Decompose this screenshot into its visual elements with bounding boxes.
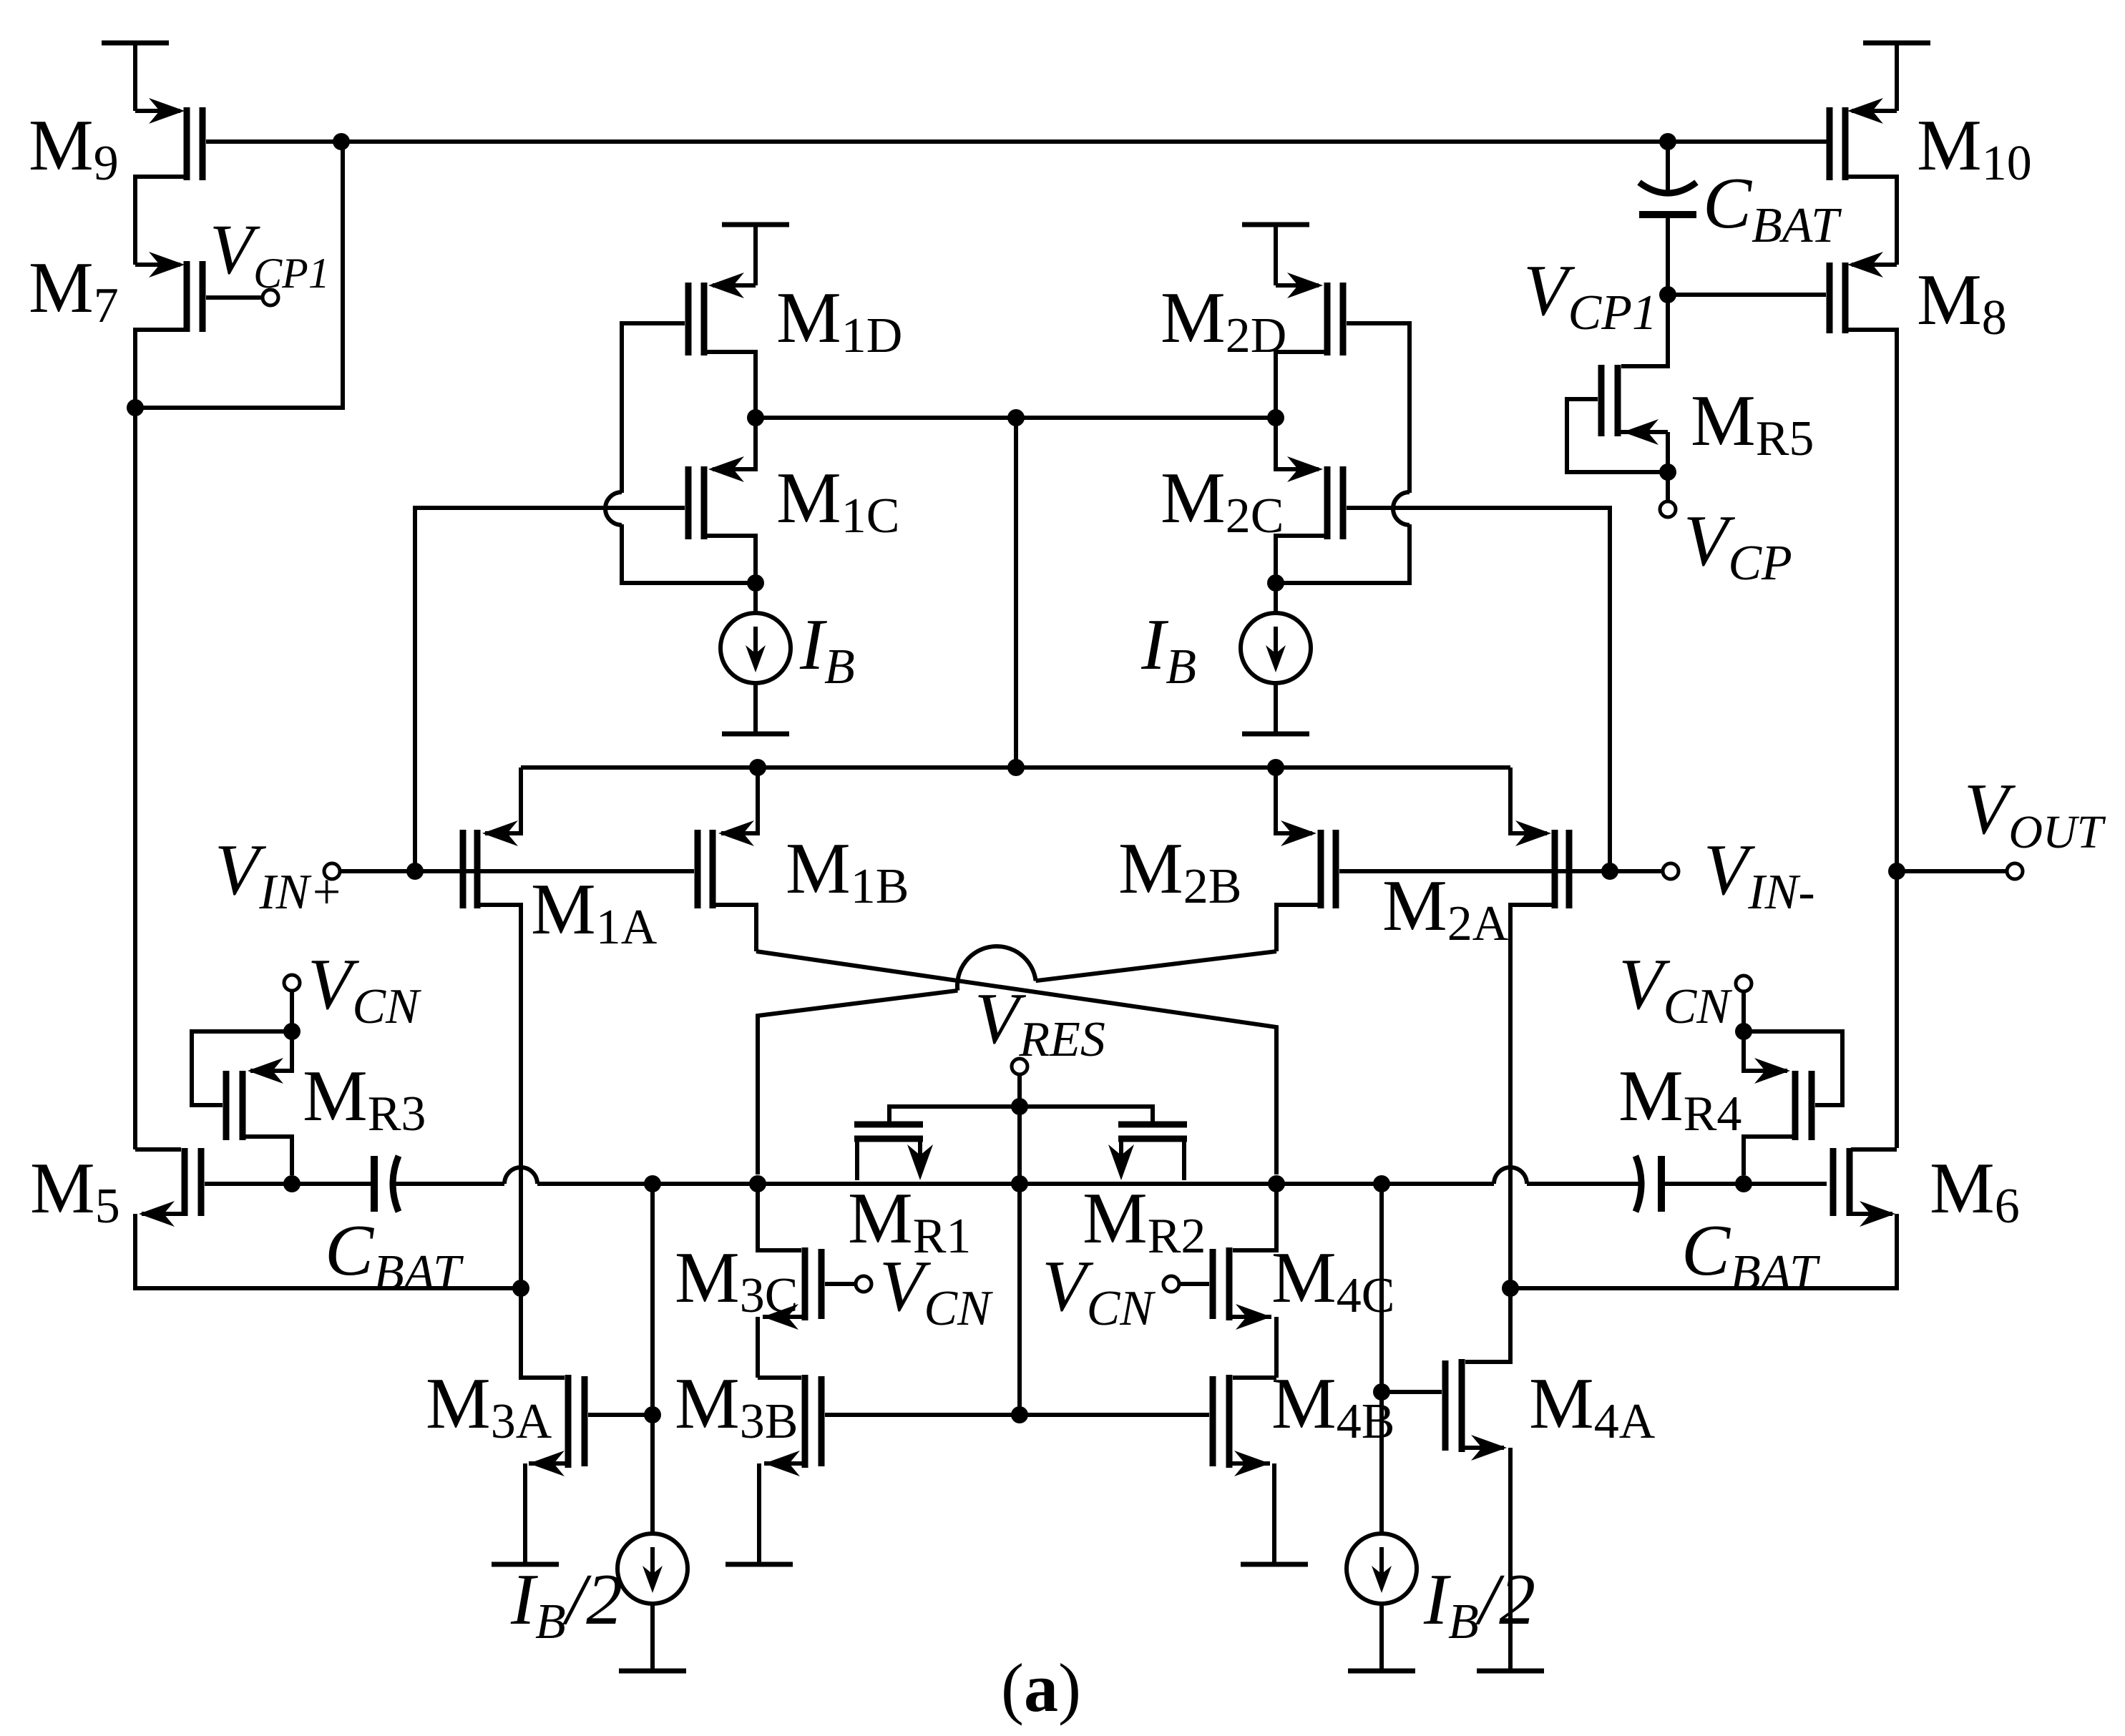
label MR2 <box>1083 1178 1206 1264</box>
node VCN left junction <box>283 1023 301 1040</box>
transistor M2A <box>1510 768 1569 1288</box>
node rail M2B-M3C <box>749 1175 766 1192</box>
label M3A <box>426 1363 552 1449</box>
label VCN at M4C <box>1042 1246 1156 1336</box>
wire M2C gate to VIN- node <box>1347 508 1610 864</box>
transistor MR5 <box>1567 295 1668 472</box>
power supply rail (VDD) for M10 <box>1863 43 1930 111</box>
label M10 <box>1917 105 2032 191</box>
label IB/2 left <box>510 1559 622 1649</box>
wire VIN- to M2A/M2B gates <box>1339 869 1664 873</box>
wire VIN+ to M1A/M1B gates <box>339 869 694 873</box>
wire VCN stub left <box>290 990 294 1031</box>
node rail IB2 left <box>644 1175 661 1192</box>
current source IB left <box>720 583 791 732</box>
node rail IB2 right <box>1373 1175 1390 1192</box>
terminal VCP <box>1660 472 1676 517</box>
wire M7 drain down to M5 source <box>133 408 137 1149</box>
wire battery rail segment 4 <box>1527 1182 1643 1186</box>
wire M1D-M2D drains (mid horizontal) <box>756 416 1276 420</box>
label M1A <box>531 869 658 955</box>
label M3B <box>675 1363 798 1449</box>
current source IB/2 left <box>617 1534 688 1669</box>
transistor M7 <box>135 252 263 408</box>
label M5 <box>30 1148 120 1234</box>
wire M3B-M4B gate line <box>825 1413 1209 1417</box>
wire bias right vertical <box>1379 1184 1384 1536</box>
node M1B source <box>749 759 766 776</box>
transistor M2C <box>1276 418 1343 575</box>
wire battery rail segment 2 <box>391 1182 504 1186</box>
terminal VCN right <box>1736 976 1752 991</box>
transistor M9 <box>135 98 202 265</box>
transistor M1C <box>688 418 756 575</box>
node VIN+ junction <box>406 863 424 880</box>
transistor M10 <box>1830 98 1897 265</box>
transistor M2D <box>1276 273 1343 413</box>
label M8 <box>1917 260 2007 345</box>
transistor M8 <box>1668 252 1897 1148</box>
ground M3A <box>492 1562 559 1567</box>
label MR1 <box>848 1178 971 1264</box>
current source IB/2 right <box>1347 1534 1417 1669</box>
wire battery rail middle segment <box>537 1182 1494 1186</box>
node rail MR4 drain <box>1735 1175 1752 1192</box>
label VCP1 right <box>1523 250 1657 340</box>
label M2A <box>1382 865 1509 951</box>
ground IB right <box>1242 732 1309 737</box>
node M2C drain <box>1267 574 1284 592</box>
ground IB left <box>722 732 789 737</box>
wire hop over M1A drain <box>504 1167 537 1184</box>
wire M1B drain slant to right <box>756 951 1276 1175</box>
transistor M6 <box>1518 1148 1897 1288</box>
wire M2D gate to M2C drain (with hop) <box>1284 323 1410 583</box>
label M3C <box>675 1237 798 1323</box>
label CBAT top <box>1703 163 1842 253</box>
wire VRES vertical to gate line <box>1017 1107 1022 1415</box>
terminal VOUT <box>2007 863 2023 879</box>
label IB left <box>799 604 855 695</box>
label CBAT left <box>325 1210 464 1300</box>
node rail center <box>1011 1175 1028 1192</box>
transistor M1B <box>698 768 758 951</box>
wire hop over M2A drain <box>1494 1167 1527 1184</box>
label VIN+ <box>215 830 343 920</box>
transistor MR4 <box>1744 1031 1842 1175</box>
svg-text:(a): (a) <box>1001 1649 1081 1726</box>
wire VOUT <box>1897 869 2008 873</box>
label IB/2 right <box>1423 1559 1535 1649</box>
node M2D drain <box>1267 409 1284 426</box>
node VCN right junction <box>1735 1023 1752 1040</box>
ground M4A <box>1477 1669 1544 1674</box>
label M4A <box>1529 1363 1656 1449</box>
capacitor CBAT left <box>374 1156 399 1212</box>
transistor M4C <box>1178 1184 1276 1378</box>
transistor MR3 <box>192 1031 292 1175</box>
label VCP1 at M7 <box>210 210 330 297</box>
label VCP <box>1684 501 1792 591</box>
current source IB right <box>1241 583 1311 732</box>
ground IB/2 left <box>619 1669 686 1674</box>
wire M1C gate to VIN+ node <box>415 508 685 864</box>
terminal VIN+ <box>324 863 340 879</box>
transistor M4B <box>1213 1375 1276 1562</box>
node M4A gate junction <box>1373 1383 1390 1401</box>
wire bias left vertical <box>650 1184 655 1536</box>
wire M9 gate to M10 gate (top horizontal) <box>206 139 1827 144</box>
label M4B <box>1271 1363 1394 1449</box>
label M1D <box>776 278 902 363</box>
label M9 <box>29 105 119 191</box>
terminal VCN at M4C gate <box>1163 1276 1179 1292</box>
label M1B <box>786 828 909 914</box>
label VCN left <box>308 944 421 1034</box>
label VCN right <box>1618 944 1732 1034</box>
node M6-M2A-M4A junction <box>1502 1280 1519 1297</box>
wire VRES gate line <box>889 1107 1153 1122</box>
label MR3 <box>303 1056 426 1142</box>
node rail MR3 drain <box>283 1175 301 1192</box>
terminal VRES <box>1012 1059 1027 1074</box>
node M7 drain junction <box>127 399 144 416</box>
transistor M3A <box>521 1288 645 1562</box>
node M3A gate junction <box>644 1406 661 1423</box>
label VOUT <box>1964 769 2106 858</box>
node M9 gate junction <box>333 133 350 150</box>
node center top <box>1007 409 1025 426</box>
label M2B <box>1118 828 1241 914</box>
svg-text:IB/2: IB/2 <box>510 1559 622 1649</box>
label MR5 <box>1691 381 1814 466</box>
wire battery rail left segment <box>205 1182 371 1186</box>
transistor M4A <box>1389 1288 1510 1669</box>
terminal VCN at M3C gate <box>856 1276 871 1292</box>
terminal VCP1 (M7 gate) <box>263 290 278 305</box>
transistor M2B <box>1276 768 1336 951</box>
node MR5 drain junction <box>1659 464 1676 481</box>
label M7 <box>29 247 119 333</box>
ground M3B <box>726 1562 793 1567</box>
label M2D <box>1161 278 1286 363</box>
node VRES junction <box>1011 1098 1028 1115</box>
ground IB/2 right <box>1348 1669 1415 1674</box>
svg-text:IB/2: IB/2 <box>1423 1559 1535 1649</box>
wire tail rail above input pair <box>521 765 1510 770</box>
caption (a) <box>1001 1649 1081 1726</box>
terminal VIN- <box>1663 863 1679 879</box>
node M5-M1A-M3A junction <box>512 1280 529 1297</box>
power supply rail (VDD) for M1D <box>722 225 789 285</box>
label IB right <box>1140 604 1196 695</box>
node M1D drain <box>747 409 764 426</box>
label M2C <box>1161 458 1284 544</box>
wire VRES stub <box>1017 1074 1022 1107</box>
transistor M1D <box>688 273 756 413</box>
wire battery rail right segment <box>1665 1182 1827 1186</box>
wire VCN stub right <box>1741 991 1746 1031</box>
power supply rail (VDD) for M9 <box>102 43 169 111</box>
capacitor CBAT (top) <box>1639 142 1696 295</box>
label VRES <box>974 979 1105 1067</box>
label M4C <box>1271 1237 1394 1323</box>
node VCP1 right junction <box>1659 286 1676 303</box>
transistor MR2 <box>1108 1124 1187 1180</box>
label M6 <box>1930 1148 2020 1234</box>
node rail M1B-M4C <box>1268 1175 1285 1192</box>
wire M9 gate down to M7 drain <box>143 142 343 408</box>
transistor MR1 <box>854 1124 933 1180</box>
power supply rail (VDD) for M2D <box>1242 225 1309 285</box>
wire M2B drain slant to left (with crossover hop) <box>758 946 1276 1175</box>
label VIN- <box>1704 830 1815 920</box>
transistor M3B <box>758 1375 821 1562</box>
transistor M3C <box>758 1184 856 1378</box>
transistor M1A <box>463 768 521 1288</box>
node VOUT junction <box>1888 863 1905 880</box>
node VIN- junction <box>1601 863 1618 880</box>
node CBAT top junction <box>1659 133 1676 150</box>
label MR4 <box>1618 1056 1741 1142</box>
wire center vertical (mid to tail rail) <box>1014 418 1018 768</box>
capacitor CBAT right <box>1636 1156 1661 1212</box>
node center bottom <box>1007 759 1025 776</box>
node M1C drain <box>747 574 764 592</box>
ground M4B <box>1241 1562 1308 1567</box>
node gate line center <box>1011 1406 1028 1423</box>
wire M1D gate to M1C drain (with hop) <box>605 323 748 583</box>
label VCN at M3C <box>879 1246 993 1336</box>
transistor M5 <box>135 1148 513 1288</box>
label M1C <box>776 458 899 544</box>
node M2B source <box>1267 759 1284 776</box>
label CBAT right <box>1681 1210 1821 1300</box>
terminal VCN left <box>284 975 300 991</box>
